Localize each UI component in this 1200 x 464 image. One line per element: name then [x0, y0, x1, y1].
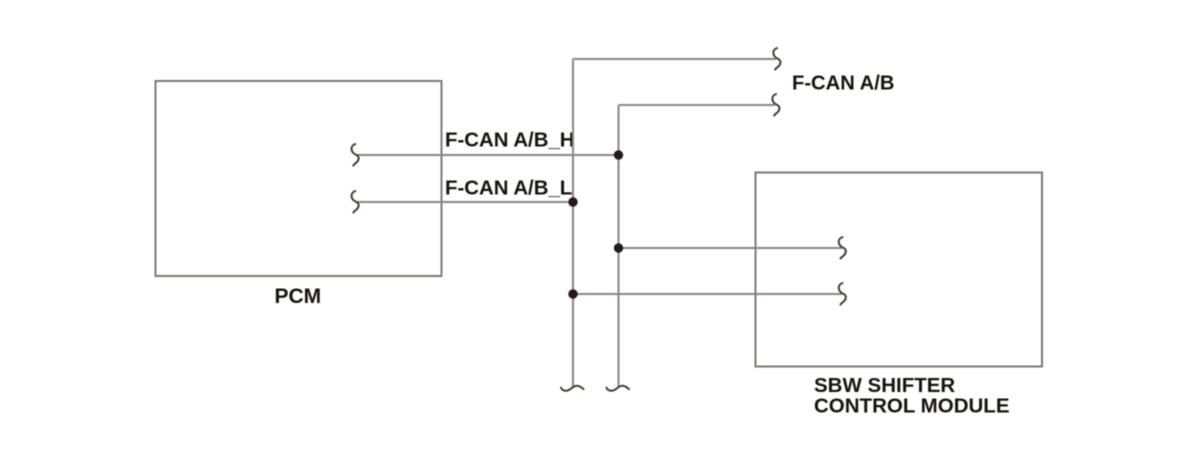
svg-text:F-CAN A/B_H: F-CAN A/B_H: [445, 130, 575, 152]
wire left bus vertical: [572, 59, 574, 387]
break symbol at end of top branch 2: [772, 94, 779, 116]
svg-text:PCM: PCM: [275, 285, 322, 308]
wire F-CAN A/B_H (PCM to bus): [356, 154, 619, 156]
svg-text:F-CAN A/B: F-CAN A/B: [792, 73, 894, 95]
break symbol at PCM pin (F-CAN A/B_H): [352, 144, 359, 166]
svg-text:F-CAN A/B_L: F-CAN A/B_L: [445, 178, 572, 200]
junction dot on left bus at SBW lower branch: [568, 289, 577, 298]
break symbol at SBW pin (upper): [839, 237, 846, 259]
break symbol at PCM pin (F-CAN A/B_L): [352, 191, 359, 213]
wire SBW branch upper (right bus to SBW): [619, 247, 843, 249]
wire SBW branch lower (left bus to SBW): [573, 293, 842, 295]
break symbol at bottom of right bus: [607, 386, 630, 391]
wire top branch 1 (left bus to F-CAN A/B): [573, 58, 776, 60]
break symbol at bottom of left bus: [561, 386, 584, 391]
junction dot on right bus at SBW upper branch: [614, 243, 623, 252]
wire top branch 2 (right bus to F-CAN A/B): [619, 104, 776, 106]
wire F-CAN A/B_L (PCM to bus): [356, 201, 574, 203]
junction dot on left bus at F-CAN A/B_L: [568, 197, 577, 206]
SBW SHIFTER CONTROL MODULE box: [756, 173, 1043, 367]
break symbol at SBW pin (lower): [839, 283, 846, 305]
wire right bus vertical: [618, 105, 620, 387]
PCM box: [156, 81, 442, 276]
break symbol at end of top branch 1: [773, 48, 780, 70]
svg-text:CONTROL MODULE: CONTROL MODULE: [814, 394, 1010, 417]
junction dot on right bus at F-CAN A/B_H: [614, 150, 623, 159]
